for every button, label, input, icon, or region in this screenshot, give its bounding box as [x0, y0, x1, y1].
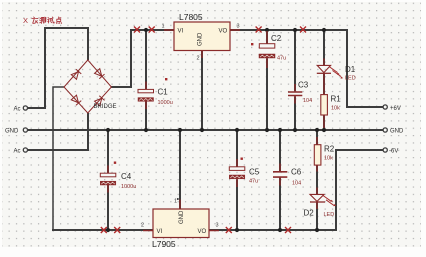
svg-text:3: 3	[216, 223, 219, 229]
terminal -6V	[383, 148, 398, 155]
svg-text:104: 104	[292, 181, 301, 187]
resistor R1 (10k)	[321, 95, 341, 129]
capacitor C3 (ceramic 104)	[288, 81, 312, 105]
test point X on output rail left of C5	[226, 227, 232, 233]
svg-text:L7805: L7805	[179, 12, 203, 22]
junction C6 output rail	[278, 228, 282, 232]
wire: L7805 ground pin to bus	[201, 51, 203, 130]
terminal AC2	[14, 148, 28, 155]
wire: L7905 ground pin to bus	[179, 130, 181, 209]
svg-text:LED: LED	[324, 212, 335, 218]
wire: bridge left to negative rail	[53, 87, 64, 230]
capacitor C6 (ceramic 104)	[273, 164, 302, 187]
op-amp style box: regulator U1 L7805	[162, 12, 241, 62]
wire: terminal AC2 to bridge bottom	[27, 113, 88, 150]
junction C6 ground bus	[278, 128, 282, 132]
resistor R2 (10k)	[314, 137, 334, 172]
junction C5 ground bus	[235, 128, 239, 132]
wire: L7805 output rail to +6V	[230, 30, 383, 107]
hanzi 测	[40, 17, 46, 23]
title: X 为测试点	[23, 16, 62, 25]
capacitor C1 (electrolytic 1000u)	[138, 78, 173, 109]
svg-text:104: 104	[303, 98, 312, 104]
svg-text:BRIDGE: BRIDGE	[94, 104, 117, 110]
wire: D1 R1 branch	[323, 30, 325, 130]
junction D2 output rail	[315, 228, 319, 232]
bridge rectifier BRIDGE	[64, 60, 111, 113]
terminal GND right	[383, 128, 404, 134]
wire: C6 branch	[279, 130, 281, 230]
test point X on negative rail left of C4	[101, 227, 107, 233]
svg-text:Ac: Ac	[14, 149, 21, 155]
diode bridge top-left	[71, 69, 81, 79]
svg-text:10k: 10k	[324, 156, 333, 162]
junction C3 top rail	[293, 28, 297, 32]
svg-text:R2: R2	[324, 145, 335, 154]
svg-text:+6V: +6V	[390, 106, 401, 112]
svg-text:-6V: -6V	[389, 149, 398, 155]
wire: negative rail to L7905 input	[52, 229, 154, 231]
svg-text:VI: VI	[157, 229, 163, 235]
diode bridge bottom-right	[95, 96, 105, 106]
svg-text:LED: LED	[345, 76, 356, 82]
svg-text:C2: C2	[271, 34, 282, 43]
test point X on negative rail right of C4	[114, 227, 120, 233]
terminal AC1	[14, 106, 28, 113]
junction C5 output rail	[235, 228, 239, 232]
junction D1 top rail	[322, 28, 326, 32]
test point X on top rail right of C3	[300, 27, 306, 33]
LED D1	[317, 59, 356, 95]
regulator U2 L7905	[141, 198, 219, 249]
junction C3 ground bus	[293, 128, 297, 132]
diode bridge bottom-left	[71, 95, 81, 105]
wire: C4 branch	[107, 130, 109, 230]
junction R2 ground bus	[315, 128, 319, 132]
svg-text:1000u: 1000u	[158, 100, 173, 106]
wire: bridge right to L7805 input	[111, 30, 174, 87]
junction U1 pin2 ground bus	[200, 128, 204, 132]
svg-text:X: X	[23, 16, 28, 25]
svg-text:VO: VO	[219, 29, 228, 35]
capacitor C5 (electrolytic 47u)	[229, 158, 259, 188]
junction C4 negative rail	[106, 228, 110, 232]
svg-text:C5: C5	[249, 168, 260, 177]
svg-text:C4: C4	[121, 172, 132, 181]
svg-text:D1: D1	[345, 65, 356, 74]
wire: L7905 output rail to -6V	[208, 150, 383, 230]
svg-text:C6: C6	[291, 168, 302, 177]
svg-text:47u: 47u	[277, 56, 286, 62]
svg-text:2: 2	[141, 223, 144, 229]
svg-text:R1: R1	[331, 95, 342, 104]
wire: C3 branch	[294, 30, 296, 130]
capacitor C2 (electrolytic 47u)	[251, 31, 286, 68]
wire: R2 D2 branch	[316, 130, 318, 230]
wire: C1 branch	[145, 30, 147, 130]
svg-text:C3: C3	[298, 81, 309, 90]
wire: terminal AC1 to bridge top	[27, 28, 88, 108]
svg-text:D2: D2	[304, 209, 315, 218]
svg-text:C1: C1	[158, 88, 169, 97]
hanzi 为	[32, 17, 38, 23]
svg-text:GND: GND	[5, 128, 19, 134]
hanzi 点	[56, 17, 61, 24]
junction C1 top rail	[144, 28, 148, 32]
wire: C2 branch	[266, 30, 268, 130]
svg-text:Ac: Ac	[14, 107, 21, 113]
test point X on top rail right of C1	[149, 27, 155, 33]
test point X on output rail right of C6	[285, 227, 291, 233]
svg-text:3: 3	[237, 24, 240, 30]
svg-text:2: 2	[197, 56, 200, 62]
terminal +6V	[383, 105, 401, 112]
svg-text:GND: GND	[198, 32, 204, 46]
svg-text:VO: VO	[198, 229, 207, 235]
svg-text:1: 1	[162, 24, 165, 30]
svg-text:47u: 47u	[249, 179, 258, 185]
test point X on top rail left of C1	[134, 27, 140, 33]
svg-text:10k: 10k	[331, 106, 340, 112]
wire: C5 branch	[236, 130, 238, 230]
svg-text:1: 1	[174, 199, 177, 205]
svg-text:1000u: 1000u	[121, 184, 136, 190]
svg-text:GND: GND	[390, 128, 404, 134]
junction C4 ground bus	[106, 128, 110, 132]
test point X on top rail left of C2	[256, 27, 262, 33]
svg-text:VI: VI	[178, 29, 184, 35]
hanzi 试	[48, 17, 55, 23]
junction C1 ground bus	[144, 128, 148, 132]
wire: ground bus	[27, 129, 383, 131]
svg-text:L7905: L7905	[152, 239, 176, 249]
svg-text:GND: GND	[179, 210, 185, 224]
diode bridge top-right	[95, 69, 105, 79]
junction R1 ground bus	[322, 128, 326, 132]
junction C2 ground bus	[265, 128, 269, 132]
junction U2 pin1 ground bus	[178, 128, 182, 132]
junction C2 top rail	[265, 28, 269, 32]
LED D2	[304, 188, 337, 219]
terminal GND left	[5, 128, 28, 134]
capacitor C4 (electrolytic 1000u)	[100, 162, 136, 193]
